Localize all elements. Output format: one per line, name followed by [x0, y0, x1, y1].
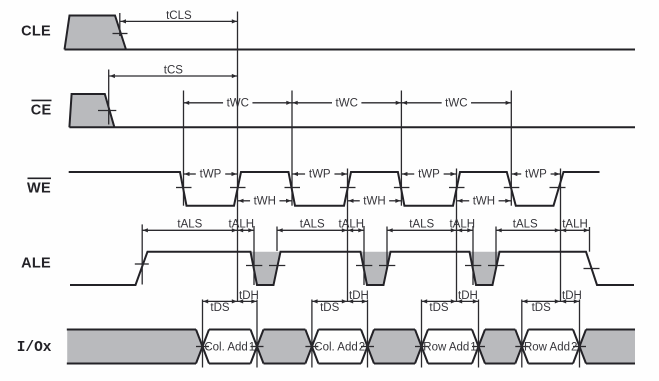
- wire I/Ox bus bottom rail: [67, 363, 635, 365]
- svg-text:tWC: tWC: [445, 97, 467, 109]
- dimension tDS: [203, 299, 238, 314]
- I/Ox bus gray segment 1: [67, 330, 202, 364]
- I/Ox crossover 7 reference tick: [521, 300, 523, 368]
- svg-text:tWP: tWP: [418, 168, 440, 180]
- I/Ox bus crossover 1: [196, 330, 209, 364]
- WE falling edge 3 cross tick: [394, 187, 410, 189]
- I/Ox crossover 4 reference tick: [367, 300, 369, 368]
- dimension tALH: [229, 219, 255, 233]
- svg-text:Row Add 1: Row Add 1: [423, 342, 476, 354]
- CE falling-edge cross tick: [98, 110, 116, 112]
- svg-text:tALH: tALH: [562, 219, 588, 231]
- CLE falling-edge reference tick: [119, 13, 121, 36]
- ALE final falling edge cross tick: [584, 268, 600, 270]
- I/Ox bus crossover 6: [472, 330, 485, 364]
- svg-text:tCLS: tCLS: [166, 10, 192, 22]
- svg-text:tWH: tWH: [254, 195, 276, 207]
- dimension tDH: [238, 290, 259, 304]
- ALE notch 3 rise reference tick (tALS start): [495, 227, 497, 268]
- ALE notch 3 rising edge cross tick: [488, 265, 504, 267]
- svg-text:Col. Add 1: Col. Add 1: [204, 342, 255, 354]
- dimension tDH: [561, 290, 582, 304]
- node WE falling edge 1 reference line: [183, 91, 185, 206]
- ALE final fall reference tick (tALH 4 end): [589, 227, 591, 252]
- I/Ox bus gray segment 3: [368, 330, 422, 364]
- svg-text:I/Ox: I/Ox: [17, 340, 52, 356]
- svg-text:CLE: CLE: [21, 24, 51, 40]
- wire CLE low level: [65, 49, 636, 51]
- svg-text:tDH: tDH: [349, 290, 369, 302]
- svg-text:tWP: tWP: [200, 168, 222, 180]
- I/Ox crossover 7 cross tick: [515, 346, 528, 348]
- dimension tWH: [238, 195, 292, 207]
- svg-text:tDS: tDS: [210, 302, 230, 314]
- svg-text:tALS: tALS: [300, 219, 325, 231]
- dimension tWP: [512, 168, 561, 180]
- dimension tWH: [348, 195, 401, 207]
- signal label WE (active low): [27, 178, 51, 196]
- WE rising edge 4 cross tick: [550, 187, 566, 189]
- I/Ox crossover 3 cross tick: [305, 346, 318, 348]
- node WE falling edge 4 reference line: [510, 91, 512, 206]
- ALE notch 1 rising edge cross tick: [269, 265, 285, 267]
- node WE rising edge 4 reference line (data latch 4): [560, 169, 562, 302]
- I/Ox crossover 5 reference tick: [421, 300, 423, 368]
- dimension tWP: [402, 168, 457, 180]
- I/Ox crossover 8 cross tick: [573, 346, 586, 348]
- svg-text:Row Add 2: Row Add 2: [524, 342, 577, 354]
- I/Ox crossover 6 reference tick: [478, 300, 480, 368]
- CLE falling-edge cross tick: [113, 33, 128, 35]
- ALE notch 2 fall reference tick (tALH end): [363, 226, 365, 285]
- dimension tCLS: [120, 10, 237, 24]
- svg-text:tDS: tDS: [532, 302, 552, 314]
- CE don't-care high pulse: [69, 94, 114, 127]
- dimension tCS: [109, 64, 237, 78]
- svg-text:CE: CE: [31, 103, 52, 119]
- ALE don't-care notch 2 (gray): [361, 252, 391, 285]
- ALE notch 1 fall reference tick (tALH end): [253, 226, 255, 285]
- svg-text:tWC: tWC: [336, 97, 358, 109]
- dimension tWC: [401, 97, 511, 109]
- svg-text:tDH: tDH: [239, 290, 259, 302]
- wire WE waveform (4 low pulses): [69, 172, 600, 206]
- I/Ox bus gray segment 5: [580, 330, 636, 364]
- I/Ox bus gray segment 4: [479, 330, 522, 364]
- node WE rising edge 2 reference line (data latch 2): [347, 169, 349, 302]
- I/Ox crossover 6 cross tick: [472, 346, 485, 348]
- dimension tALH: [339, 219, 365, 233]
- dimension tDH: [457, 290, 479, 304]
- ALE rise reference tick (tALS 1 start): [141, 224, 143, 284]
- ALE notch 2 falling edge cross tick: [356, 265, 372, 267]
- I/Ox bus crossover 2: [251, 330, 264, 364]
- wire ALE waveform: [70, 252, 634, 285]
- ALE initial rising edge cross tick: [135, 263, 149, 265]
- dimension tALH: [450, 219, 476, 233]
- dimension tDS: [522, 299, 561, 314]
- svg-text:tALH: tALH: [450, 219, 476, 231]
- svg-text:tALH: tALH: [339, 219, 365, 231]
- svg-text:tALS: tALS: [409, 219, 434, 231]
- node WE rising edge 1 reference line (data latch 1): [237, 12, 239, 302]
- dimension tALS: [496, 219, 561, 233]
- wire I/Ox bus top rail: [67, 329, 635, 331]
- node WE rising edge 3 reference line (data latch 3): [456, 169, 458, 302]
- dimension tALS: [142, 219, 237, 233]
- I/Ox crossover 4 cross tick: [361, 346, 374, 348]
- WE falling edge 1 cross tick: [176, 187, 192, 189]
- svg-text:WE: WE: [27, 181, 51, 197]
- svg-text:tWH: tWH: [473, 195, 495, 207]
- dimension tALH: [561, 219, 590, 233]
- I/Ox bus crossover 8: [573, 330, 586, 364]
- wire CE low level: [69, 126, 635, 128]
- svg-text:tALH: tALH: [229, 219, 255, 231]
- I/Ox crossover 8 reference tick: [579, 300, 581, 368]
- svg-text:tCS: tCS: [164, 64, 184, 76]
- dimension tDH: [348, 290, 369, 304]
- node WE falling edge 3 reference line: [400, 91, 402, 206]
- svg-text:tDH: tDH: [458, 290, 478, 302]
- dimension tWC: [184, 97, 293, 109]
- svg-text:tDS: tDS: [320, 302, 340, 314]
- I/Ox crossover 1 reference tick: [202, 300, 204, 368]
- I/Ox bus gray segment 2: [257, 330, 312, 364]
- svg-text:tWP: tWP: [309, 168, 331, 180]
- svg-text:tDS: tDS: [429, 302, 449, 314]
- CLE don't-care high pulse: [65, 16, 127, 50]
- ALE don't-care notch 1 (gray): [251, 252, 281, 285]
- I/Ox crossover 3 reference tick: [311, 300, 313, 368]
- svg-text:Col. Add 2: Col. Add 2: [314, 342, 365, 354]
- node WE falling edge 2 reference line: [291, 91, 293, 206]
- WE falling edge 2 cross tick: [285, 187, 301, 189]
- dimension tWC: [292, 97, 401, 109]
- ALE notch 2 rising edge cross tick: [379, 265, 395, 267]
- I/Ox crossover 2 reference tick: [256, 300, 258, 368]
- I/Ox crossover 2 cross tick: [251, 346, 264, 348]
- dimension tWP: [184, 168, 237, 180]
- ALE notch 1 rise reference tick (tALS start): [276, 227, 278, 252]
- dimension tDS: [422, 299, 457, 314]
- dimension tALS: [277, 219, 348, 233]
- WE rising edge 1 cross tick: [230, 187, 246, 189]
- signal label CE (active low): [31, 100, 52, 118]
- I/Ox bus crossover 3: [305, 330, 318, 364]
- dimension tDS: [312, 299, 348, 314]
- svg-text:tALS: tALS: [513, 219, 538, 231]
- ALE don't-care notch 3 (gray): [470, 252, 500, 285]
- svg-text:tWH: tWH: [363, 195, 385, 207]
- svg-text:tDH: tDH: [562, 290, 582, 302]
- ALE notch 2 rise reference tick (tALS start): [386, 227, 388, 268]
- dimension tALS: [387, 219, 457, 233]
- ALE notch 3 fall reference tick (tALH end): [472, 226, 474, 285]
- I/Ox crossover 5 cross tick: [415, 346, 428, 348]
- dimension tWP: [292, 168, 347, 180]
- ALE notch 3 falling edge cross tick: [465, 265, 481, 267]
- WE rising edge 3 cross tick: [449, 187, 465, 189]
- I/Ox crossover 1 cross tick: [196, 346, 209, 348]
- WE rising edge 2 cross tick: [340, 187, 356, 189]
- svg-text:tALS: tALS: [177, 219, 202, 231]
- CE falling-edge reference tick: [108, 70, 110, 125]
- I/Ox bus crossover 5: [415, 330, 428, 364]
- svg-text:tWP: tWP: [525, 168, 547, 180]
- ALE notch 1 falling edge cross tick: [246, 265, 262, 267]
- dimension tWH: [457, 195, 511, 207]
- I/Ox bus crossover 7: [515, 330, 528, 364]
- svg-text:ALE: ALE: [21, 256, 51, 272]
- WE falling edge 4 cross tick: [504, 187, 520, 189]
- I/Ox bus crossover 4: [361, 330, 374, 364]
